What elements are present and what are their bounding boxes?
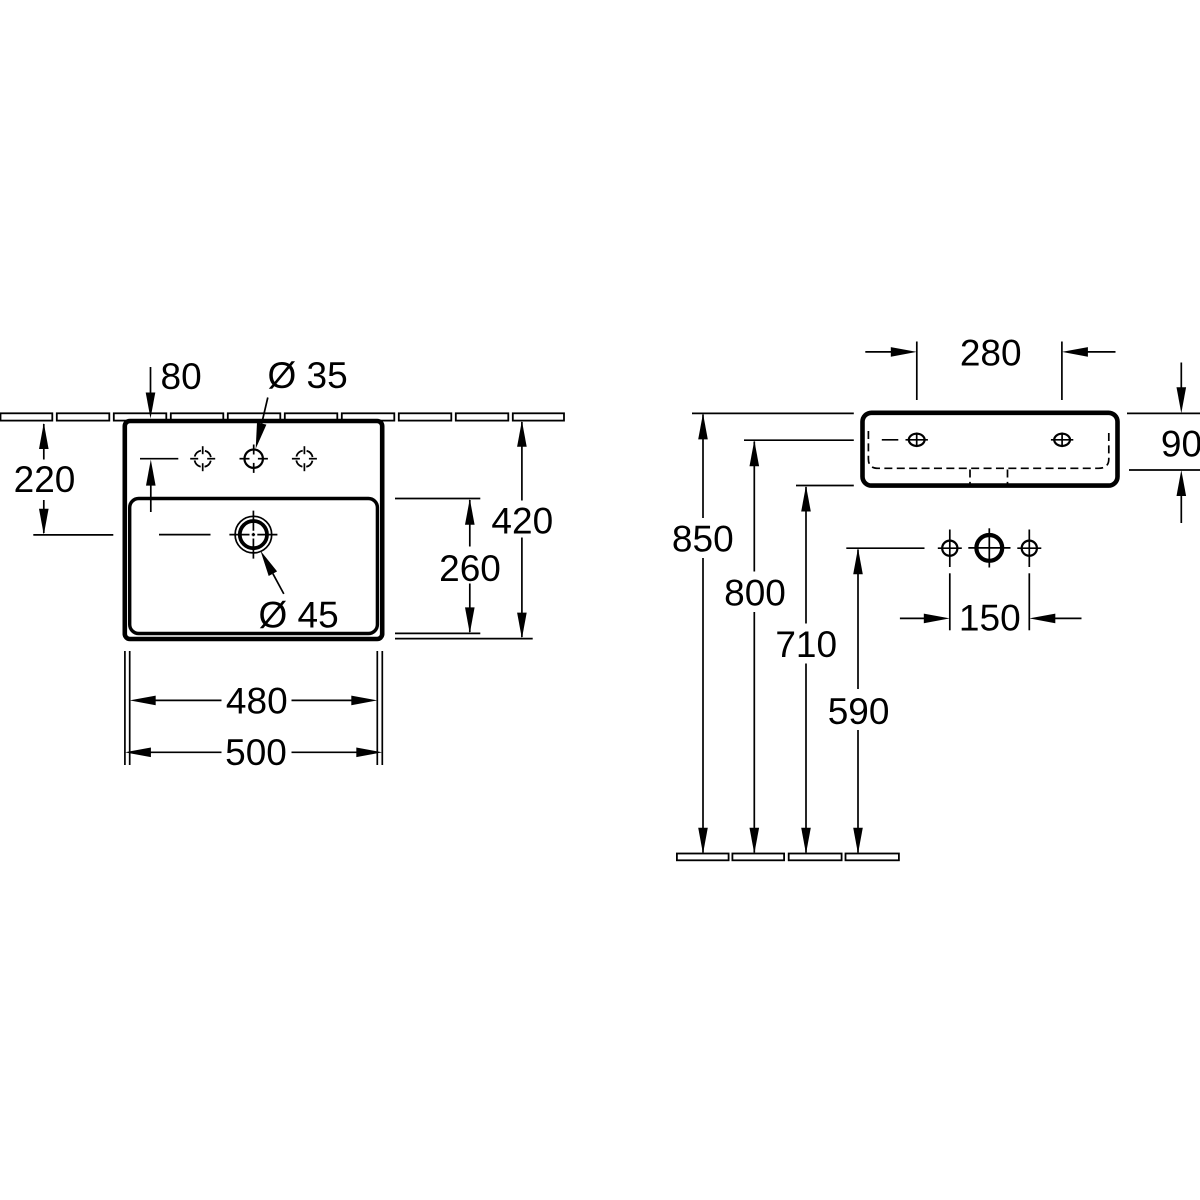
dim 150 left arrow: [900, 614, 950, 624]
drain hole outer circle: [235, 516, 272, 553]
dim 850 line lower + down arrow: [698, 558, 708, 854]
svg-text:280: 280: [960, 333, 1022, 374]
bottom extension line inner-right: [376, 651, 378, 765]
wall hatch line (plan view, top): [1, 413, 565, 420]
dim 280 right arrow: [1062, 347, 1116, 357]
dim 80 down arrow: [146, 367, 156, 419]
dim 800 line upper + up arrow: [750, 440, 760, 571]
side view drain notch dashed right: [1007, 470, 1009, 484]
bottom extension line inner-left: [129, 651, 131, 765]
dim 220 line lower + down arrow: [39, 500, 49, 535]
dim 480 right arrow: [292, 696, 378, 706]
dim 220 extension line: [33, 534, 113, 536]
floor hatch line (bottom): [677, 854, 899, 861]
dim 280 left extension line: [916, 342, 918, 401]
svg-text:800: 800: [724, 572, 786, 613]
dim 420 line upper + up arrow: [517, 421, 527, 501]
drain hole inner circle: [240, 521, 267, 548]
side view mounting hole left: [906, 433, 928, 448]
dim 260 line lower + down arrow: [465, 584, 475, 634]
dim 150 left extension line: [949, 573, 951, 630]
svg-text:480: 480: [226, 681, 288, 722]
dim 280 left arrow: [865, 347, 917, 357]
dim 80 up arrow: [146, 460, 156, 512]
dim 500 left arrow: [125, 748, 222, 758]
side view centerline dash left of hole: [882, 439, 899, 441]
dim 800 line lower + down arrow: [750, 612, 760, 854]
svg-text:80: 80: [161, 356, 202, 397]
hole row right small hole: [1017, 530, 1041, 568]
dim 420 line lower + down arrow: [517, 538, 527, 639]
side view mounting hole right: [1051, 433, 1073, 448]
svg-text:260: 260: [439, 548, 501, 589]
drain centerline left: [159, 534, 211, 536]
side view interior dashed profile: [868, 431, 1108, 468]
dim 500 right arrow: [292, 748, 383, 758]
dim 850 extension line: [692, 412, 854, 414]
dim 710 line lower + down arrow: [801, 664, 811, 854]
dim 590 line upper + up arrow: [853, 548, 863, 689]
faucet hole left (dashed): [190, 446, 215, 471]
dim 90 up arrow: [1177, 470, 1187, 523]
dim 800 extension line: [744, 439, 854, 441]
side view outer outline: [863, 413, 1118, 486]
dim 710 line upper + up arrow: [801, 486, 811, 624]
faucet row centerline: [140, 458, 178, 460]
drain crosshair horizontal: [229, 534, 277, 536]
right side extension line outer bottom: [395, 638, 533, 640]
dim Ø45 leader: [261, 551, 284, 594]
side view drain notch dashed left: [969, 470, 971, 484]
svg-text:150: 150: [959, 597, 1021, 638]
dim 150 right extension line: [1028, 573, 1030, 630]
bottom extension line outer-right: [381, 651, 383, 765]
svg-text:590: 590: [828, 691, 890, 732]
dim 710 extension line: [796, 485, 854, 487]
bottom extension line outer-left: [124, 651, 126, 765]
dim 90 bottom extension line: [1129, 469, 1200, 471]
svg-text:220: 220: [14, 459, 76, 500]
svg-text:500: 500: [225, 732, 287, 773]
hole row center large hole: [968, 528, 1010, 567]
hole row left small hole: [938, 530, 962, 568]
basin bowl inner rim (plan view): [130, 499, 378, 634]
dim 850 line upper + up arrow: [698, 413, 708, 518]
faucet hole center: [240, 445, 268, 473]
dim 90 down arrow: [1177, 363, 1187, 414]
basin outer outline (plan view): [125, 421, 382, 639]
svg-text:Ø 45: Ø 45: [259, 594, 339, 635]
dim 220 line upper + up arrow: [39, 423, 49, 460]
dim 280 right extension line: [1061, 342, 1063, 401]
svg-text:710: 710: [775, 624, 837, 665]
faucet hole row centerline: [846, 547, 924, 549]
dim Ø35 leader: [256, 398, 268, 449]
dim 150 right arrow: [1029, 614, 1081, 624]
drain crosshair vertical: [252, 511, 254, 559]
right side extension line rim level: [395, 498, 480, 500]
faucet hole right (dashed): [292, 446, 317, 471]
dim 590 line lower + down arrow: [853, 730, 863, 854]
svg-text:420: 420: [491, 500, 553, 541]
svg-text:90: 90: [1161, 423, 1200, 464]
svg-text:850: 850: [672, 519, 734, 560]
dim 90 top extension line: [1127, 412, 1200, 414]
dim 260 line upper + up arrow: [465, 499, 475, 547]
right side extension line inner bottom: [395, 632, 480, 634]
dim 480 left arrow: [130, 696, 222, 706]
svg-text:Ø 35: Ø 35: [268, 355, 348, 396]
